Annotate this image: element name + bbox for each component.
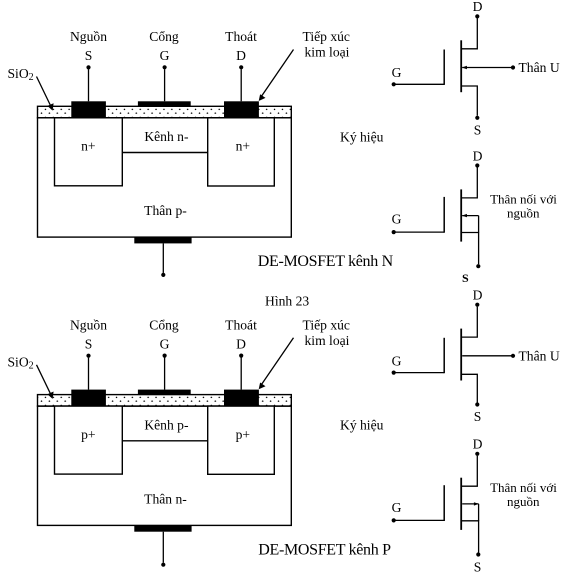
svg-text:G: G (392, 212, 402, 227)
node S terminal (86, 354, 90, 358)
wire G lead (164, 358, 166, 390)
wire S lead (88, 69, 90, 101)
n+ drain region well (208, 118, 275, 186)
body arrowhead (N-channel, pointing in) (462, 214, 467, 217)
wire S lead (88, 358, 90, 390)
wire drain lead (461, 18, 477, 49)
source metal contact (71, 101, 106, 118)
svg-text:Thân n-: Thân n- (144, 491, 187, 506)
node D terminal (475, 14, 479, 18)
svg-text:n+: n+ (236, 139, 250, 154)
svg-text:kim loại: kim loại (305, 45, 350, 60)
wire gate lead (394, 372, 445, 374)
svg-text:p+: p+ (236, 427, 250, 442)
svg-text:DE-MOSFET kênh N: DE-MOSFET kênh N (258, 253, 394, 270)
source metal contact (71, 390, 106, 407)
svg-text:p+: p+ (81, 427, 95, 442)
leader arrow to metal contact (261, 50, 294, 98)
svg-text:D: D (236, 48, 246, 63)
svg-text:S: S (474, 409, 482, 424)
leader arrow to SiO2 layer (37, 77, 51, 106)
drain metal contact (224, 101, 259, 118)
node G terminal (163, 354, 167, 358)
svg-text:nguồn: nguồn (507, 206, 540, 221)
wire source lead (461, 521, 479, 553)
node G terminal (392, 230, 396, 234)
svg-text:Ký hiệu: Ký hiệu (340, 418, 384, 433)
node body terminal (511, 65, 515, 69)
node D terminal (239, 354, 243, 358)
wire drain lead (461, 167, 477, 198)
svg-text:G: G (392, 65, 402, 80)
svg-text:Cổng: Cổng (149, 317, 179, 332)
svg-text:S: S (474, 123, 482, 138)
wire gate lead (394, 83, 445, 85)
node G terminal (392, 518, 396, 522)
node S terminal (86, 65, 90, 69)
svg-text:Hình 23: Hình 23 (265, 294, 309, 309)
channel bar (depletion MOSFET) (460, 478, 462, 530)
wire body lead (462, 355, 513, 357)
wire source lead (461, 374, 477, 402)
svg-text:Thân U: Thân U (519, 60, 560, 75)
svg-text:S: S (462, 271, 469, 285)
node D terminal (475, 163, 479, 167)
svg-text:Tiếp xúc: Tiếp xúc (303, 29, 350, 44)
svg-text:D: D (473, 148, 483, 163)
node D terminal (475, 452, 479, 456)
svg-text:Thân nối với: Thân nối với (490, 480, 557, 495)
svg-text:Ký hiệu: Ký hiệu (340, 130, 384, 145)
drain metal contact (224, 390, 259, 407)
svg-text:Kênh p-: Kênh p- (144, 417, 189, 432)
node D terminal (475, 303, 479, 307)
channel bar (depletion MOSFET) (460, 189, 462, 241)
SiO2 oxide layer (38, 106, 292, 118)
svg-text:Cổng: Cổng (149, 29, 179, 44)
node substrate terminal (161, 563, 165, 567)
svg-text:G: G (392, 353, 402, 368)
wire drain lead (461, 456, 477, 487)
svg-text:Thân p-: Thân p- (144, 203, 187, 218)
wire drain lead (461, 307, 477, 338)
gate electrode bar (443, 485, 445, 521)
gate metal electrode (138, 390, 191, 395)
wire source lead (461, 86, 477, 116)
p+ drain region well (208, 406, 275, 474)
wire G lead (164, 69, 166, 101)
leader arrow to SiO2 layer (37, 365, 51, 394)
substrate body Thân region (38, 406, 292, 525)
wire body-to-source vertical (478, 216, 480, 233)
body arrowhead (P-channel, pointing out) (474, 502, 479, 505)
wire gate lead (394, 519, 445, 521)
node G terminal (392, 371, 396, 375)
svg-text:Kênh n-: Kênh n- (144, 129, 189, 144)
n+ source region well (55, 118, 123, 186)
svg-text:S: S (474, 559, 482, 574)
svg-text:G: G (160, 48, 170, 63)
svg-text:G: G (392, 500, 402, 515)
wire gate lead (394, 231, 445, 233)
body arrowhead (N-channel) (462, 66, 467, 69)
svg-text:G: G (160, 336, 170, 351)
wire source lead (461, 233, 479, 265)
svg-text:n+: n+ (81, 139, 95, 154)
p+ source region well (55, 406, 123, 474)
wire body lead (462, 67, 513, 69)
wire body lead tied down to source (462, 503, 478, 505)
substrate metal contact (134, 237, 191, 243)
svg-text:Thoát: Thoát (225, 317, 257, 332)
svg-text:Tiếp xúc: Tiếp xúc (303, 317, 350, 332)
node body terminal (511, 354, 515, 358)
svg-text:Thân nối với: Thân nối với (490, 192, 557, 207)
svg-text:Thoát: Thoát (225, 29, 257, 44)
node S terminal (475, 402, 479, 406)
node substrate terminal (161, 273, 165, 277)
wire D lead (240, 358, 242, 390)
channel bar (depletion MOSFET) (460, 40, 462, 92)
channel Kênh p- bottom boundary (122, 440, 207, 442)
node G terminal (392, 82, 396, 86)
channel Kênh n- bottom boundary (122, 152, 207, 154)
wire body-to-source vertical (478, 504, 480, 521)
svg-text:Nguồn: Nguồn (70, 29, 107, 44)
svg-text:S: S (85, 48, 93, 63)
gate electrode bar (443, 50, 445, 85)
node G terminal (163, 65, 167, 69)
svg-text:S: S (85, 336, 93, 351)
substrate metal contact (134, 525, 191, 531)
node S terminal (475, 116, 479, 120)
wire substrate lead (162, 243, 164, 273)
gate electrode bar (443, 197, 445, 233)
node D terminal (239, 65, 243, 69)
svg-text:DE-MOSFET kênh P: DE-MOSFET kênh P (258, 542, 391, 559)
wire substrate lead (162, 532, 164, 563)
gate metal electrode (138, 101, 191, 106)
svg-text:nguồn: nguồn (507, 494, 540, 509)
leader arrow to metal contact (261, 338, 294, 386)
gate electrode bar (443, 338, 445, 373)
substrate body Thân region (38, 118, 292, 237)
svg-text:D: D (473, 287, 483, 302)
SiO2 oxide layer (38, 395, 292, 407)
svg-text:Thân U: Thân U (519, 348, 560, 363)
svg-text:D: D (236, 336, 246, 351)
wire D lead (240, 69, 242, 101)
svg-text:D: D (473, 437, 483, 452)
svg-text:Nguồn: Nguồn (70, 317, 107, 332)
node S terminal (476, 552, 480, 556)
channel bar (depletion MOSFET) (460, 329, 462, 381)
svg-text:D: D (473, 0, 483, 14)
node S terminal (476, 264, 480, 268)
wire body lead tied down to source (462, 215, 478, 217)
svg-text:kim loại: kim loại (305, 333, 350, 348)
